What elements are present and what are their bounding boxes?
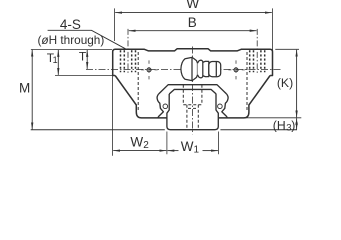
svg-text:): ) bbox=[291, 118, 295, 132]
svg-text:1: 1 bbox=[194, 144, 200, 155]
svg-text:W: W bbox=[130, 134, 143, 149]
svg-text:M: M bbox=[19, 81, 30, 96]
svg-text:W: W bbox=[181, 139, 194, 154]
svg-text:(K): (K) bbox=[277, 76, 293, 90]
svg-text:W: W bbox=[186, 0, 199, 11]
svg-text:T: T bbox=[79, 50, 87, 64]
svg-text:B: B bbox=[188, 15, 197, 30]
svg-text:2: 2 bbox=[143, 140, 149, 151]
svg-text:(øH through): (øH through) bbox=[38, 33, 105, 47]
svg-text:1: 1 bbox=[53, 55, 58, 65]
svg-text:4-S: 4-S bbox=[60, 17, 81, 32]
svg-text:(H: (H bbox=[273, 118, 286, 132]
